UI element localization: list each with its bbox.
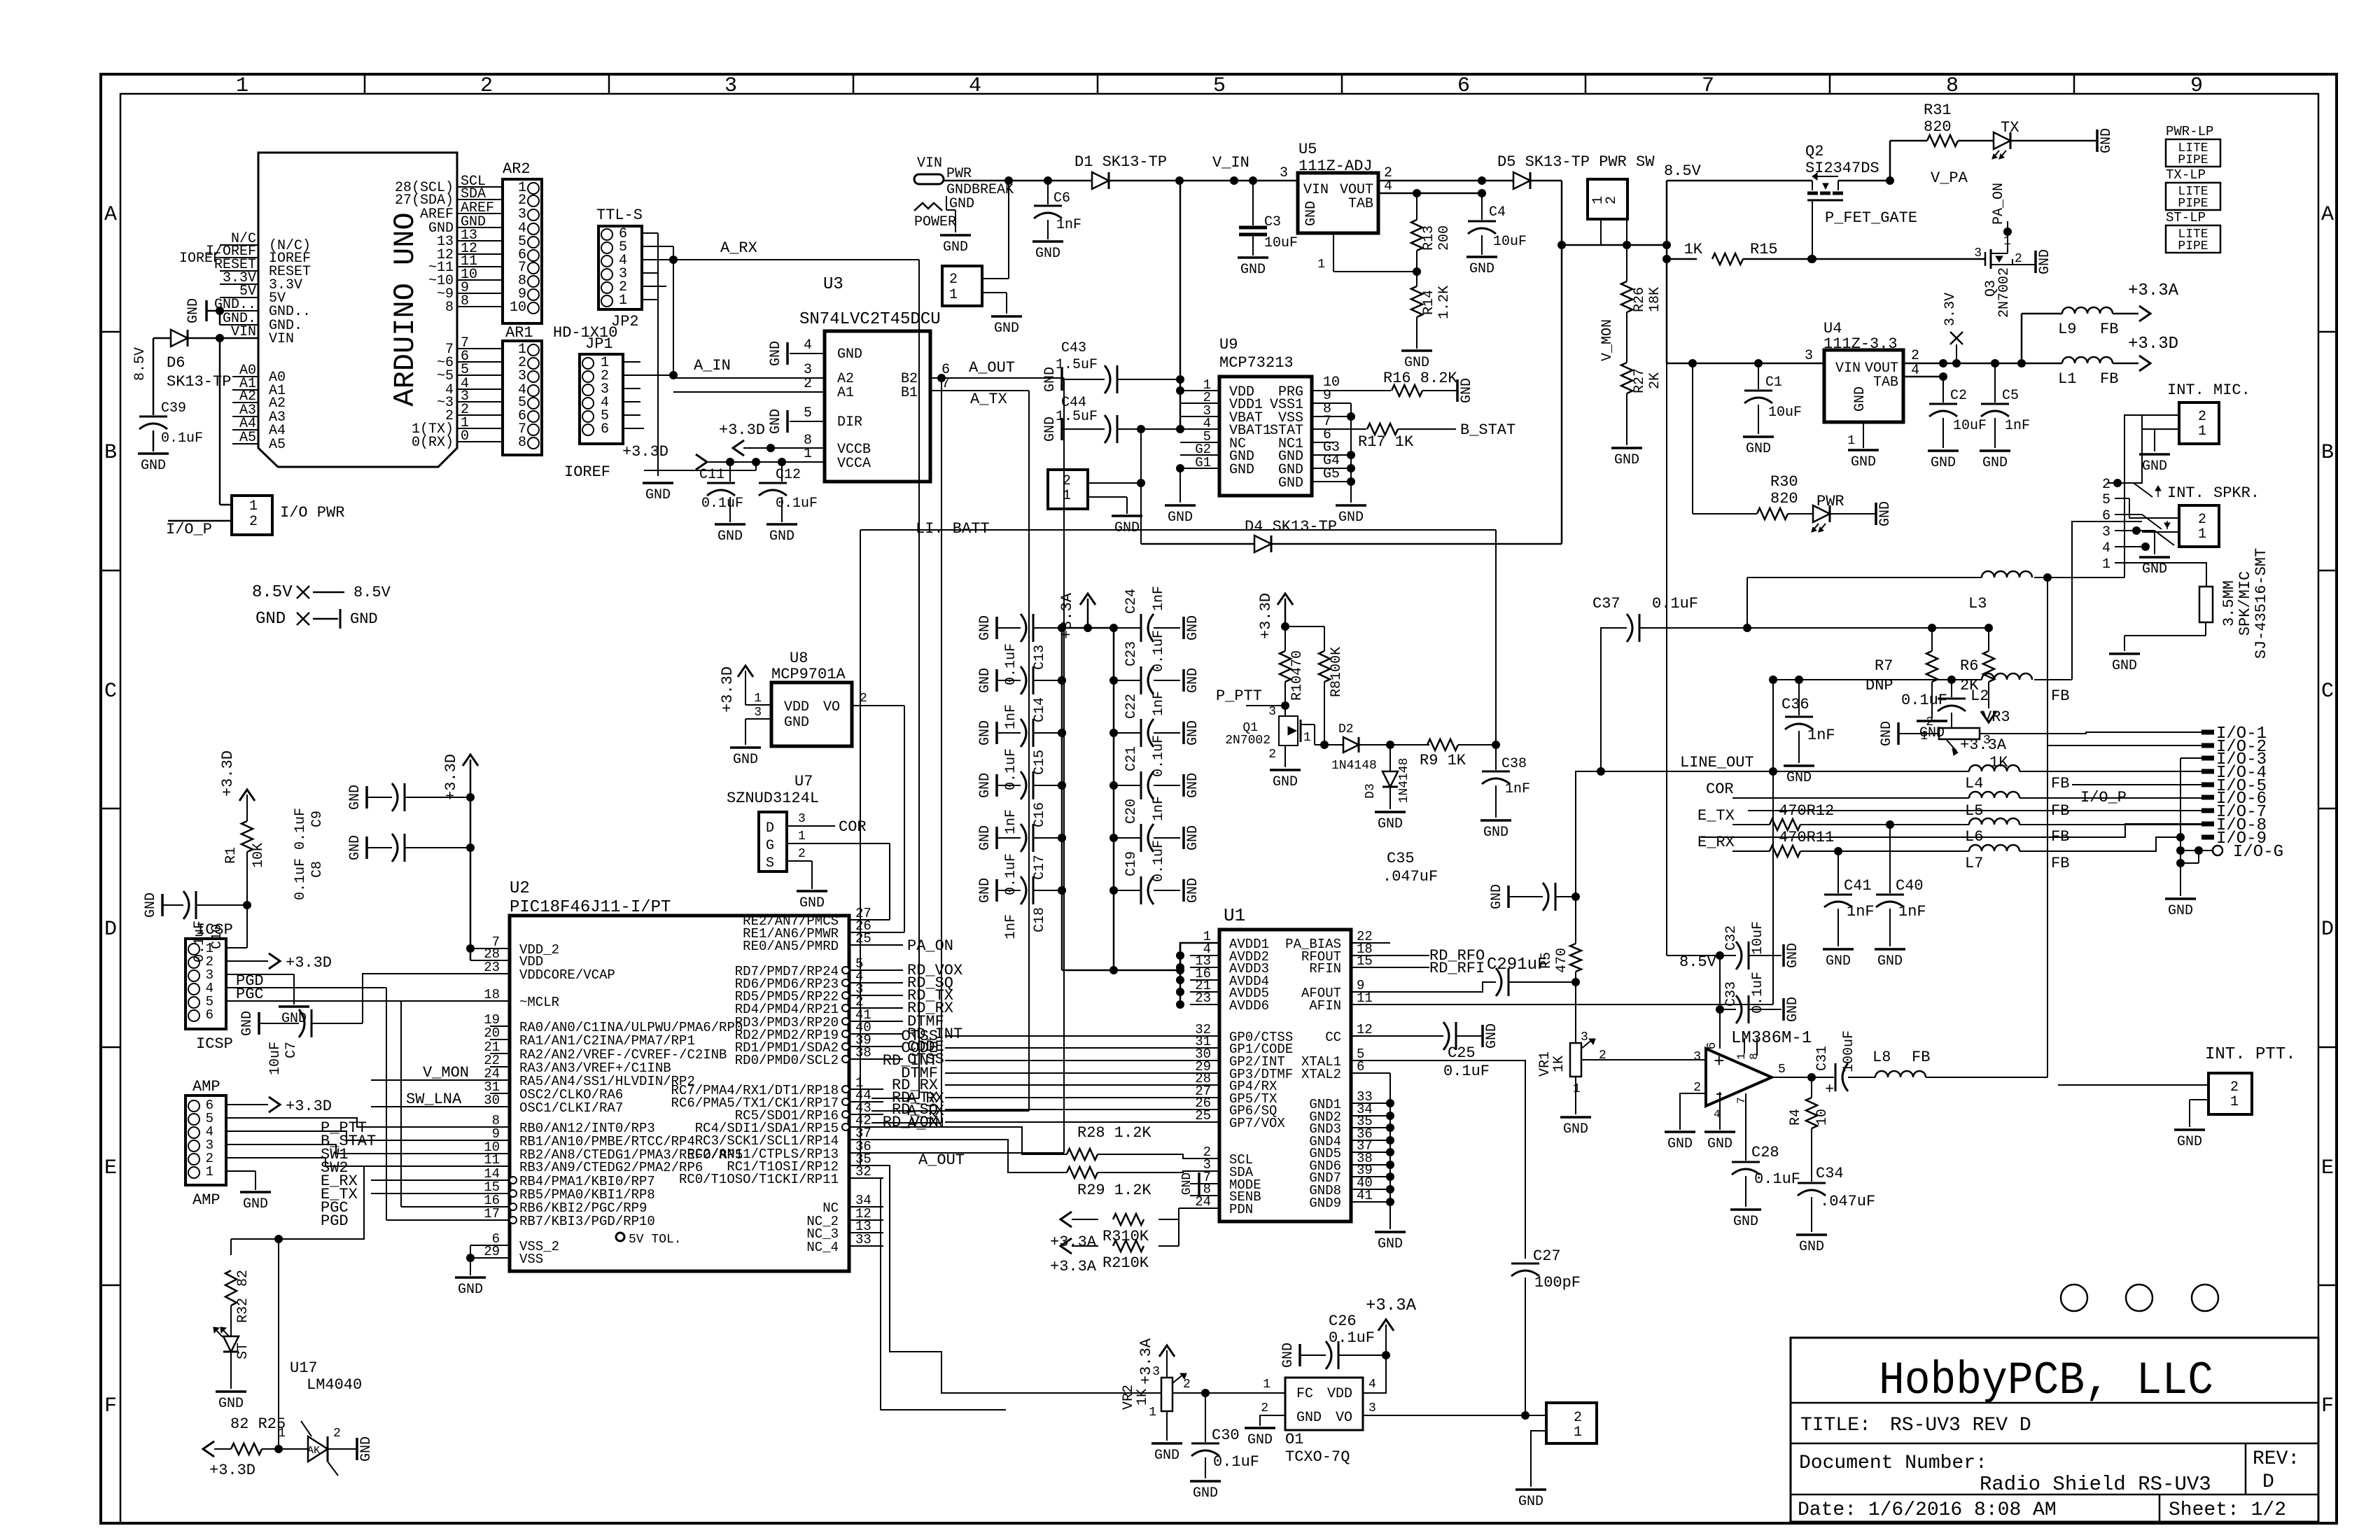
capacitor C41 1nF	[1837, 851, 1839, 893]
svg-text:Date: 1/6/2016 8:08 AM: Date: 1/6/2016 8:08 AM	[1798, 1499, 2057, 1521]
resistor R10 470	[1284, 626, 1286, 651]
capacitor C40 1nF	[1889, 825, 1891, 893]
R2 R3 10K pullups	[1060, 1212, 1072, 1227]
svg-text:10: 10	[1814, 1109, 1830, 1126]
svg-text:PWR-LP: PWR-LP	[2166, 124, 2213, 139]
connector PWR SW	[1588, 179, 1627, 219]
svg-text:CC: CC	[1325, 1030, 1341, 1045]
svg-text:GND: GND	[1185, 720, 1201, 745]
capacitor C18 1nF	[995, 879, 998, 902]
svg-text:LM386M-1: LM386M-1	[1731, 1029, 1812, 1048]
svg-text:ICSP: ICSP	[196, 1035, 233, 1053]
wire A_OUT vertical	[1063, 378, 1065, 1153]
svg-text:C37: C37	[1592, 595, 1620, 612]
svg-text:GND: GND	[358, 1436, 374, 1462]
2-pin power connector	[942, 266, 982, 306]
AMP wires	[226, 1104, 268, 1105]
svg-text:C12: C12	[776, 467, 801, 483]
+3.3A arrow for cap array	[1062, 627, 1114, 629]
svg-text:GND: GND	[141, 458, 166, 474]
U9 left bus	[1179, 181, 1182, 430]
U2 bottom-right long wires	[871, 1165, 1161, 1393]
svg-text:4: 4	[969, 74, 981, 98]
svg-text:+3.3D: +3.3D	[286, 954, 332, 972]
svg-text:0.1uF: 0.1uF	[1003, 853, 1019, 895]
switch arrows	[2157, 489, 2159, 497]
svg-text:1: 1	[1735, 1053, 1748, 1060]
svg-text:GND: GND	[1469, 261, 1494, 277]
svg-text:TTL-S: TTL-S	[596, 206, 643, 224]
inductor L9 FB	[2021, 314, 2023, 363]
U3 outputs	[930, 377, 1064, 379]
svg-text:R4: R4	[1788, 1109, 1804, 1126]
3.5mm jack SJ-43516-SMT	[2199, 587, 2213, 622]
svg-text:1K: 1K	[1551, 1056, 1567, 1072]
svg-text:C31: C31	[1814, 1046, 1830, 1071]
svg-text:GND: GND	[1185, 615, 1201, 640]
svg-text:1nF: 1nF	[1898, 903, 1926, 920]
svg-text:C17: C17	[1032, 855, 1048, 880]
svg-text:41: 41	[1357, 1188, 1373, 1203]
gnd for TX led	[2096, 129, 2099, 152]
svg-text:GND: GND	[1852, 386, 1868, 412]
potentiometer VR2 1K	[1161, 1378, 1172, 1411]
svg-text:C32: C32	[1723, 925, 1739, 951]
svg-text:29: 29	[484, 1244, 500, 1259]
svg-text:Q2: Q2	[1805, 143, 1823, 160]
svg-text:PIPE: PIPE	[2178, 197, 2208, 211]
inductor L1 FB	[2062, 357, 2113, 363]
svg-text:VO: VO	[1336, 1410, 1352, 1426]
inductor L4 FB	[1969, 765, 2019, 771]
svg-text:GND: GND	[1273, 774, 1298, 790]
svg-text:SK13-TP: SK13-TP	[167, 373, 231, 391]
svg-text:C27: C27	[1533, 1247, 1561, 1265]
svg-text:A: A	[2321, 203, 2334, 227]
svg-text:GND: GND	[1240, 262, 1266, 278]
gnd below JP2	[657, 233, 659, 476]
svg-text:TAB: TAB	[1873, 374, 1898, 391]
svg-text:3: 3	[798, 812, 806, 826]
svg-text:U17: U17	[290, 1359, 318, 1377]
svg-text:4: 4	[1368, 1378, 1376, 1392]
svg-text:C34: C34	[1816, 1165, 1844, 1182]
capacitor C12	[781, 462, 783, 482]
svg-text:GND: GND	[1982, 455, 2008, 471]
svg-text:L9: L9	[2058, 321, 2076, 338]
capacitor C15 0.1uF	[995, 722, 998, 744]
svg-text:R32: R32	[235, 1298, 251, 1323]
svg-text:5V TOL.: 5V TOL.	[629, 1233, 682, 1247]
svg-text:GND: GND	[1280, 1343, 1296, 1368]
svg-text:C16: C16	[1032, 802, 1048, 827]
svg-text:2N7002: 2N7002	[1225, 734, 1270, 748]
svg-text:GND: GND	[1247, 1432, 1273, 1448]
svg-text:R14: R14	[1421, 290, 1437, 315]
svg-text:1N4148: 1N4148	[1331, 759, 1377, 773]
svg-text:+3.3D: +3.3D	[209, 1462, 255, 1479]
MCLR wire	[392, 1000, 490, 1002]
svg-text:PIPE: PIPE	[2178, 239, 2208, 253]
U4 pin1 gnd	[1863, 422, 1864, 448]
wire A_RX vertical	[918, 260, 920, 1098]
svg-text:MCP9701A: MCP9701A	[771, 666, 846, 683]
svg-text:GND: GND	[1518, 1494, 1543, 1510]
wire from U2 to R25 node	[278, 1239, 279, 1449]
svg-text:GND: GND	[1229, 462, 1254, 478]
svg-text:3: 3	[1581, 1030, 1588, 1044]
svg-text:RD0/PMD0/SCL2: RD0/PMD0/SCL2	[735, 1053, 839, 1068]
svg-text:1nF: 1nF	[1847, 903, 1875, 920]
svg-text:Sheet: 1/2: Sheet: 1/2	[2169, 1499, 2286, 1521]
+3.3D bus to U2 VDD	[470, 759, 472, 960]
svg-text:C13: C13	[1032, 645, 1048, 670]
svg-text:GND: GND	[1484, 1023, 1500, 1049]
svg-text:0.1uF: 0.1uF	[293, 858, 309, 900]
svg-text:E_RX: E_RX	[1697, 834, 1735, 851]
svg-text:GND: GND	[458, 1282, 483, 1298]
svg-text:C38: C38	[1501, 756, 1527, 772]
svg-text:GND: GND	[1746, 441, 1771, 457]
capacitor C30 0.1uF	[1205, 1393, 1206, 1442]
svg-text:RC0/T1OSO/T1CKI/RP11: RC0/T1OSO/T1CKI/RP11	[679, 1172, 839, 1187]
svg-text:GND: GND	[1851, 454, 1876, 470]
U5 pin1	[1333, 233, 1334, 272]
net V_MON vertical	[1626, 312, 1627, 363]
svg-text:L4: L4	[1965, 775, 1983, 792]
svg-text:GP7/VOX: GP7/VOX	[1229, 1116, 1285, 1131]
svg-text:C8: C8	[309, 861, 325, 878]
svg-text:2: 2	[1063, 473, 1071, 489]
U1 gnd bus	[1389, 1073, 1391, 1202]
svg-text:GND: GND	[1296, 1410, 1322, 1426]
capacitor C14 1nF	[995, 669, 998, 692]
svg-text:4: 4	[2102, 540, 2110, 556]
svg-text:GND: GND	[1931, 455, 1956, 471]
svg-text:2: 2	[2102, 477, 2110, 493]
svg-text:32: 32	[855, 1164, 871, 1179]
connector for TCXO out	[1546, 1403, 1597, 1443]
svg-text:C28: C28	[1751, 1144, 1779, 1161]
svg-text:R13: R13	[1421, 225, 1437, 251]
svg-text:+3.3A: +3.3A	[2128, 281, 2179, 300]
connector I/O PWR	[232, 496, 272, 535]
svg-text:D1 SK13-TP: D1 SK13-TP	[1074, 153, 1167, 171]
svg-text:GND: GND	[1185, 773, 1201, 798]
svg-text:JP1: JP1	[585, 335, 613, 353]
svg-text:L2: L2	[1970, 687, 1989, 705]
svg-text:2: 2	[2198, 409, 2206, 425]
bus to U1 AVDD pins	[1114, 943, 1219, 970]
svg-text:COR: COR	[839, 818, 867, 836]
svg-text:0.1uF: 0.1uF	[1003, 748, 1019, 790]
wire 8.5V to U4	[1667, 363, 1824, 365]
left cap bus	[1061, 628, 1063, 970]
VR2 wiper wire	[1172, 1392, 1285, 1394]
capacitor C3	[1252, 181, 1254, 225]
svg-text:3: 3	[1983, 734, 1991, 748]
PWR pad	[914, 174, 944, 184]
cap 0.1uF to VR3	[1947, 675, 1956, 684]
svg-text:D: D	[766, 820, 774, 836]
Q1 drain wire	[1315, 744, 1344, 745]
svg-text:3: 3	[1974, 246, 1982, 260]
8.5V rail down to amp	[1666, 363, 1667, 955]
svg-text:C35: C35	[1387, 850, 1415, 867]
svg-text:3: 3	[1693, 1050, 1701, 1064]
svg-text:RB7/KBI3/PGD/RP10: RB7/KBI3/PGD/RP10	[519, 1214, 655, 1229]
svg-text:FB: FB	[1912, 1049, 1930, 1066]
svg-text:INT. SPKR.: INT. SPKR.	[2167, 484, 2260, 502]
svg-text:AVDD6: AVDD6	[1229, 998, 1269, 1014]
U2 5V TOL marker	[616, 1233, 624, 1241]
svg-text:ST: ST	[235, 1343, 251, 1359]
svg-text:S: S	[766, 855, 774, 871]
capacitor C36 1nF	[1795, 675, 1803, 684]
svg-text:R31: R31	[1924, 101, 1952, 119]
potentiometer VR1 1K	[1575, 982, 1576, 1043]
svg-text:GND: GND	[645, 487, 671, 503]
svg-text:R10470: R10470	[1289, 650, 1305, 701]
svg-text:11: 11	[1357, 990, 1373, 1006]
ground for C39	[138, 452, 169, 455]
capacitor C7	[258, 1012, 260, 1035]
svg-text:C9: C9	[309, 811, 325, 827]
svg-text:GND: GND	[243, 1196, 268, 1212]
svg-text:R27: R27	[1632, 368, 1648, 393]
svg-text:G5: G5	[1323, 466, 1340, 482]
svg-text:GND: GND	[347, 785, 363, 810]
title block row lines	[1791, 1402, 2318, 1404]
svg-text:POWER: POWER	[914, 214, 956, 230]
svg-text:+3.3D: +3.3D	[219, 750, 237, 797]
svg-text:25: 25	[855, 931, 871, 946]
svg-text:GND: GND	[1180, 1172, 1194, 1195]
L8 wire up	[2047, 577, 2048, 1077]
svg-text:0.1uF: 0.1uF	[1754, 1170, 1800, 1188]
svg-text:C1: C1	[1765, 374, 1782, 391]
svg-text:TITLE:: TITLE:	[1800, 1415, 1871, 1436]
svg-text:L7: L7	[1965, 855, 1983, 872]
svg-text:C: C	[2321, 680, 2334, 703]
XTAL1 wire to C27	[1390, 1060, 1525, 1259]
svg-text:1: 1	[278, 1427, 286, 1441]
inductor L7 FB	[1969, 845, 2019, 851]
svg-text:1nF: 1nF	[1807, 727, 1835, 744]
svg-text:GND: GND	[977, 825, 993, 850]
svg-text:P_FET_GATE: P_FET_GATE	[1825, 209, 1917, 227]
resistor R15 1K	[1667, 258, 1697, 260]
svg-text:F: F	[104, 1394, 117, 1418]
svg-text:SJ-43516-SMT: SJ-43516-SMT	[2253, 548, 2270, 659]
svg-text:3: 3	[2102, 524, 2110, 540]
svg-text:VDD: VDD	[784, 699, 809, 715]
svg-text:10uF: 10uF	[1264, 235, 1298, 251]
svg-text:FC: FC	[1296, 1386, 1313, 1402]
svg-text:D6: D6	[167, 354, 185, 372]
svg-text:VIN: VIN	[1303, 182, 1329, 198]
svg-text:JP2: JP2	[611, 313, 639, 330]
svg-text:2: 2	[2198, 512, 2206, 528]
svg-text:INT. MIC.: INT. MIC.	[2167, 381, 2250, 399]
svg-text:1: 1	[949, 287, 958, 303]
svg-text:R17 1K: R17 1K	[1358, 433, 1414, 451]
wire VBAT vertical	[1140, 429, 1142, 544]
svg-text:GND: GND	[1826, 953, 1851, 969]
svg-text:+: +	[1825, 1081, 1834, 1098]
svg-text:FB: FB	[2051, 855, 2069, 872]
svg-text:D4 SK13-TP: D4 SK13-TP	[1245, 518, 1337, 535]
svg-text:820: 820	[1770, 490, 1798, 507]
vertical AFIN node	[1772, 680, 1774, 1004]
svg-text:GND: GND	[1193, 1485, 1218, 1501]
svg-text:VR3: VR3	[1982, 708, 2010, 726]
resistor R8 100K	[1324, 626, 1325, 651]
svg-text:L3: L3	[1968, 595, 1987, 612]
svg-text:6: 6	[1705, 1042, 1719, 1050]
svg-text:1: 1	[2102, 556, 2110, 573]
svg-text:R6: R6	[1960, 657, 1978, 675]
capacitor C16 1nF	[995, 774, 998, 797]
svg-text:R310K: R310K	[1102, 1228, 1149, 1245]
svg-text:GND: GND	[1489, 884, 1505, 909]
svg-text:GND: GND	[768, 341, 784, 366]
svg-text:B_STAT: B_STAT	[1460, 421, 1515, 439]
resistor R32 82	[225, 1270, 237, 1305]
svg-text:11: 11	[484, 1152, 500, 1168]
capacitor C5	[1994, 363, 1996, 402]
svg-text:1: 1	[236, 74, 248, 98]
I/O feed wires	[2047, 745, 2201, 746]
svg-text:U2: U2	[510, 879, 530, 898]
svg-text:V_MON: V_MON	[1599, 319, 1616, 361]
svg-text:PA_ON: PA_ON	[907, 937, 953, 955]
svg-text:0.1uF: 0.1uF	[1750, 972, 1766, 1014]
INT PTT wire	[2096, 775, 2208, 1078]
gnd tie for arduino GND pins	[205, 300, 208, 321]
svg-text:1nF: 1nF	[1151, 586, 1167, 611]
XTAL2 tie to gnd bus	[1389, 1073, 1391, 1103]
svg-text:C19: C19	[1123, 851, 1140, 876]
svg-text:GND: GND	[2112, 658, 2137, 674]
svg-text:18: 18	[484, 987, 500, 1002]
svg-text:20: 20	[484, 1025, 500, 1041]
svg-text:8.5V: 8.5V	[1664, 162, 1702, 180]
capacitor C24 1nF	[1114, 627, 1141, 629]
svg-text:1nF: 1nF	[2005, 418, 2030, 434]
svg-text:LINE_OUT: LINE_OUT	[1680, 754, 1754, 771]
svg-text:A_IN: A_IN	[694, 357, 731, 374]
svg-text:2: 2	[1183, 1378, 1191, 1392]
VR3 wire to I/O-1	[1980, 732, 2201, 734]
svg-text:3: 3	[1268, 705, 1276, 719]
svg-text:PGC: PGC	[236, 986, 264, 1003]
svg-text:100uF: 100uF	[1841, 1030, 1857, 1072]
status led wire	[231, 1166, 364, 1239]
svg-text:I/O-G: I/O-G	[2233, 843, 2283, 862]
svg-text:GND: GND	[977, 615, 993, 640]
svg-text:C30: C30	[1212, 1427, 1240, 1444]
svg-text:GND: GND	[1877, 501, 1893, 526]
svg-text:GND: GND	[1707, 1136, 1732, 1152]
svg-text:23: 23	[1195, 990, 1211, 1006]
capacitor C17 0.1uF	[995, 827, 998, 849]
svg-text:DIR: DIR	[837, 414, 862, 430]
svg-text:PGD: PGD	[321, 1212, 349, 1230]
svg-text:GND: GND	[799, 895, 825, 911]
svg-text:1: 1	[1317, 258, 1325, 272]
svg-text:1: 1	[1063, 488, 1071, 504]
svg-text:GND: GND	[1786, 770, 1812, 786]
svg-text:D3: D3	[1364, 783, 1378, 799]
U3 VCCB wire +3.3D	[743, 447, 825, 449]
svg-text:GND: GND	[1785, 997, 1801, 1022]
capacitor C23 0.1uF	[1114, 680, 1141, 681]
svg-text:C41: C41	[1844, 877, 1872, 895]
svg-text:1nF: 1nF	[1505, 781, 1530, 797]
svg-text:0(RX): 0(RX)	[412, 435, 454, 451]
svg-text:3: 3	[1368, 1401, 1376, 1415]
svg-text:GND: GND	[1785, 943, 1801, 968]
svg-text:C23: C23	[1123, 641, 1140, 666]
svg-text:2: 2	[1911, 348, 1919, 364]
wire A_IN vertical	[937, 374, 946, 382]
svg-text:R30: R30	[1770, 473, 1798, 491]
svg-text:0.1uF: 0.1uF	[1329, 1329, 1375, 1347]
svg-text:5: 5	[2102, 492, 2110, 508]
U2 VSS gnd	[470, 1245, 490, 1246]
svg-text:GND: GND	[2168, 903, 2193, 919]
svg-text:GND: GND	[977, 668, 993, 693]
svg-text:C26: C26	[1329, 1312, 1357, 1330]
svg-text:E: E	[104, 1156, 117, 1180]
svg-text:C24: C24	[1123, 589, 1140, 614]
svg-text:GND: GND	[1614, 452, 1639, 468]
svg-text:8.5V: 8.5V	[353, 584, 391, 601]
Q3 source gnd	[2012, 264, 2036, 265]
svg-text:GND: GND	[1404, 355, 1429, 371]
svg-text:25: 25	[1195, 1108, 1211, 1123]
LED ST	[223, 1336, 239, 1352]
svg-text:1: 1	[1847, 434, 1855, 448]
svg-text:+3.3D: +3.3D	[442, 754, 460, 800]
svg-text:2: 2	[1574, 1410, 1582, 1426]
svg-text:GND: GND	[1563, 1121, 1588, 1137]
svg-text:GND: GND	[1378, 816, 1403, 832]
svg-text:GND: GND	[1185, 668, 1201, 693]
svg-text:+3.3D: +3.3D	[2128, 335, 2178, 353]
svg-text:RS-UV3 REV D: RS-UV3 REV D	[1890, 1415, 2031, 1436]
svg-text:D: D	[2321, 918, 2334, 941]
svg-text:0.1uF: 0.1uF	[161, 430, 203, 447]
svg-text:FB: FB	[2100, 321, 2118, 338]
svg-text:C20: C20	[1123, 799, 1140, 824]
resistor R26 18K	[1626, 245, 1627, 281]
capacitor C2	[1942, 377, 1944, 402]
POWER gnd	[955, 210, 956, 232]
svg-text:GND: GND	[994, 321, 1019, 337]
svg-text:15: 15	[1357, 953, 1373, 969]
svg-text:GND: GND	[943, 239, 968, 255]
svg-text:P_PTT: P_PTT	[1216, 687, 1262, 705]
wire A_TX vertical	[1028, 391, 1030, 1111]
inductor L5 FB	[1969, 792, 2019, 798]
svg-text:AFIN: AFIN	[1309, 998, 1341, 1014]
U1 avdd vertical	[1179, 943, 1182, 1004]
svg-text:U1: U1	[1224, 905, 1245, 926]
svg-text:HobbyPCB, LLC: HobbyPCB, LLC	[1879, 1354, 2213, 1407]
svg-text:A_OUT: A_OUT	[918, 1151, 965, 1169]
